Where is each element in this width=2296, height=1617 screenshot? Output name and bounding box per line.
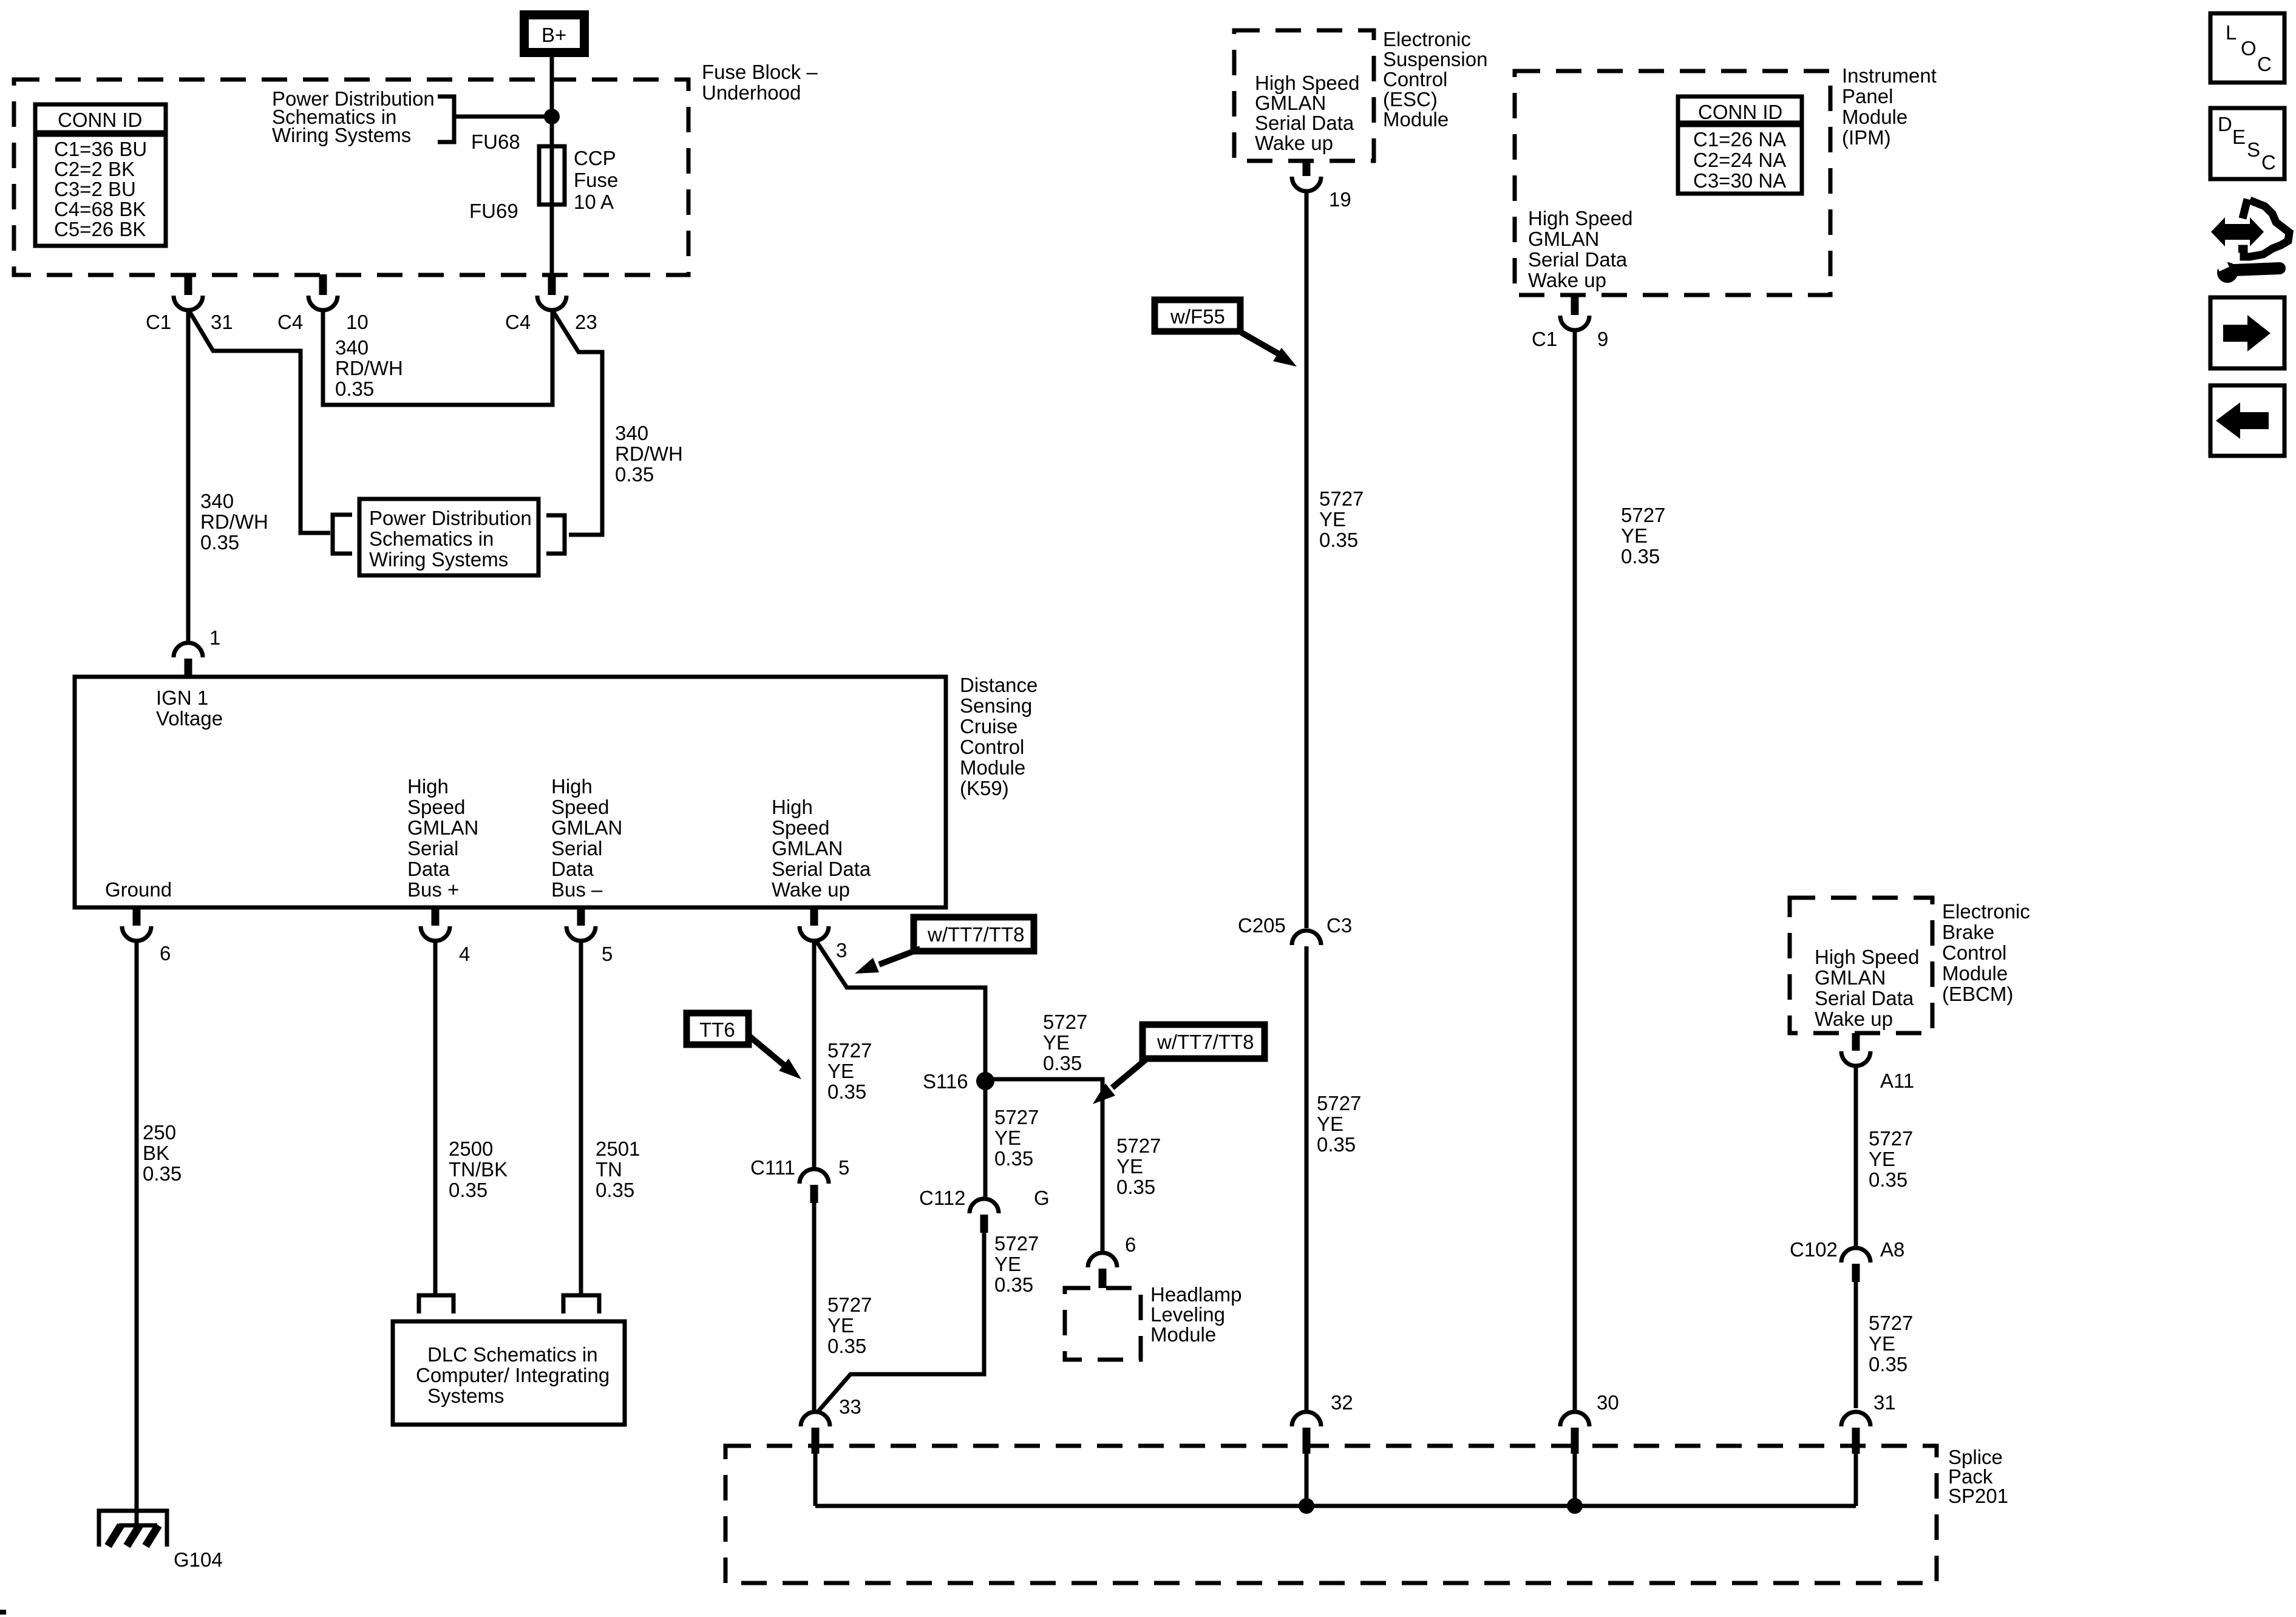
wire 340 RD/WH from C1-31 down to K59 pin 1 (186, 310, 191, 643)
svg-text:YE: YE (1317, 1113, 1343, 1135)
svg-text:S116: S116 (923, 1070, 968, 1093)
svg-text:Fuse: Fuse (574, 169, 618, 191)
label 2501 TN 0.35 (596, 1137, 640, 1201)
connector C102 pin A8 (1790, 1238, 1904, 1282)
svg-text:High Speed: High Speed (1815, 946, 1919, 968)
svg-text:Speed: Speed (407, 796, 465, 818)
svg-text:YE: YE (1043, 1031, 1070, 1054)
svg-text:5727: 5727 (827, 1039, 872, 1062)
svg-text:TT6: TT6 (699, 1019, 735, 1041)
bracket above DLC box (pin 4 wire) (419, 1295, 453, 1314)
svg-text:C4=68 BK: C4=68 BK (54, 198, 146, 220)
bracket right of Power Distribution box (546, 515, 565, 554)
label Power Distribution Schematics in Wiring Systems (top) (272, 87, 435, 146)
svg-text:C4: C4 (277, 311, 303, 333)
wire 2500 TN/BK (433, 941, 438, 1295)
svg-text:L: L (2226, 21, 2237, 44)
svg-text:(EBCM): (EBCM) (1942, 983, 2013, 1005)
svg-text:YE: YE (1621, 524, 1648, 547)
wire pin 3 down to C111 (812, 940, 817, 1169)
connector pin 19 (ESC) (1292, 161, 1351, 211)
svg-text:0.35: 0.35 (596, 1179, 634, 1201)
svg-text:GMLAN: GMLAN (1815, 966, 1886, 989)
svg-text:GMLAN: GMLAN (551, 816, 622, 839)
svg-text:GMLAN: GMLAN (407, 816, 478, 839)
svg-text:(ESC): (ESC) (1383, 88, 1438, 110)
svg-text:5727: 5727 (1621, 504, 1665, 526)
svg-text:High Speed: High Speed (1255, 72, 1359, 94)
svg-text:C4: C4 (505, 311, 531, 333)
svg-text:C102: C102 (1790, 1238, 1838, 1261)
svg-text:C3: C3 (1326, 914, 1352, 937)
label 5727 YE 0.35 (pin3 wire) (827, 1039, 872, 1103)
svg-text:(K59): (K59) (960, 777, 1009, 799)
junction node (bus x2154) (1299, 1498, 1314, 1514)
svg-text:340: 340 (200, 490, 234, 512)
fuse CCP 10A (539, 146, 565, 205)
svg-text:0.35: 0.35 (449, 1179, 487, 1201)
label 340 RD/WH 0.35 (C4-23 wire) (615, 422, 683, 486)
module K59 Distance Sensing Cruise Control (75, 677, 946, 907)
junction node (bus x2597) (1567, 1498, 1583, 1514)
svg-text:32: 32 (1331, 1391, 1353, 1414)
svg-text:5727: 5727 (1869, 1127, 1913, 1150)
svg-text:Instrument: Instrument (1842, 64, 1937, 87)
svg-text:RD/WH: RD/WH (200, 510, 268, 533)
module ESC dashed box (1234, 30, 1374, 161)
nav box back arrow (2210, 385, 2284, 456)
svg-text:C5=26 BK: C5=26 BK (54, 218, 146, 240)
label 5727 YE 0.35 (IPM wire) (1621, 504, 1665, 568)
svg-text:CONN ID: CONN ID (1698, 101, 1782, 123)
label 2500 TN/BK 0.35 (449, 1137, 508, 1201)
svg-text:5727: 5727 (994, 1232, 1039, 1255)
label 5727 YE 0.35 (above S116) (1043, 1011, 1087, 1074)
svg-text:Panel: Panel (1842, 85, 1893, 107)
connector pin A11 (EBCM) (1841, 1033, 1914, 1092)
svg-text:Suspension: Suspension (1383, 48, 1487, 70)
svg-text:SP201: SP201 (1948, 1485, 2008, 1507)
CONN ID table (fuse block) (35, 104, 166, 246)
wire C4-10 to C4-23 link (323, 310, 552, 405)
CONN ID table (IPM) (1678, 97, 1802, 194)
svg-text:w/TT7/TT8: w/TT7/TT8 (1156, 1031, 1254, 1053)
svg-text:0.35: 0.35 (1043, 1052, 1082, 1074)
svg-text:Control: Control (1942, 941, 2006, 964)
svg-text:Data: Data (407, 858, 450, 880)
wire splice bus risers (813, 1454, 818, 1506)
svg-text:5727: 5727 (1116, 1134, 1161, 1157)
nav box LOC (2210, 13, 2284, 83)
svg-text:3: 3 (836, 939, 847, 961)
connector pin 3 (K59 Wake up) (800, 906, 847, 961)
svg-text:RD/WH: RD/WH (615, 442, 683, 465)
label 5727 YE 0.35 (below C205) (1317, 1092, 1361, 1156)
svg-text:YE: YE (994, 1253, 1021, 1275)
svg-text:0.35: 0.35 (827, 1080, 866, 1103)
wire 2501 TN (579, 941, 583, 1295)
svg-text:Data: Data (551, 858, 594, 880)
wire branch C4-23 to power distribution bracket (right) (553, 311, 602, 535)
icon hand with wrench (description pointer) (2211, 199, 2289, 283)
svg-text:E: E (2232, 126, 2246, 148)
svg-text:0.35: 0.35 (1319, 529, 1358, 551)
stray mark (bottom-left corner) (0, 1610, 6, 1615)
svg-text:5727: 5727 (1869, 1312, 1913, 1334)
connector C111 pin 5 (750, 1156, 849, 1203)
svg-text:0.35: 0.35 (994, 1147, 1033, 1170)
svg-text:Schematics in: Schematics in (369, 527, 494, 550)
headlamp leveling module dashed box (1065, 1288, 1141, 1360)
svg-text:1: 1 (209, 626, 220, 649)
label Splice Pack SP201 (1948, 1446, 2008, 1507)
connector pin 6 (K59 Ground) (122, 906, 171, 964)
svg-text:YE: YE (1869, 1148, 1895, 1170)
ground G104 (99, 1511, 223, 1571)
module IPM dashed box (1515, 71, 1830, 295)
svg-text:9: 9 (1597, 328, 1608, 350)
wire pin 3 branch to S116 (817, 941, 985, 1081)
svg-text:YE: YE (827, 1314, 854, 1337)
svg-text:C1=36 BU: C1=36 BU (54, 138, 147, 160)
label Fuse Block - Underhood (702, 61, 818, 104)
arrow from TT6 to wire (749, 1036, 801, 1079)
junction node FU68 feed (544, 109, 560, 124)
wire splice bus (815, 1504, 1856, 1508)
svg-text:0.35: 0.35 (200, 531, 239, 554)
svg-text:Serial Data: Serial Data (1528, 248, 1628, 271)
wire S116 down to C112 (983, 1081, 988, 1199)
label Electronic Suspension Control (ESC) Module (1383, 28, 1487, 131)
svg-text:0.35: 0.35 (1116, 1176, 1155, 1198)
reference box TT6 (687, 1013, 749, 1045)
svg-text:High Speed: High Speed (1528, 207, 1632, 229)
svg-text:C112: C112 (919, 1187, 965, 1209)
svg-text:C: C (2257, 53, 2272, 75)
svg-text:Bus +: Bus + (407, 878, 459, 901)
svg-text:BK: BK (143, 1142, 169, 1164)
connector C1 pin 9 (IPM) (1532, 295, 1608, 350)
connector pin 30 (splice pack) (1560, 1391, 1619, 1454)
svg-text:Leveling: Leveling (1150, 1303, 1225, 1326)
svg-text:Control: Control (960, 736, 1024, 758)
bracket left of Power Distribution box (333, 515, 352, 554)
svg-text:S: S (2247, 138, 2260, 161)
svg-text:2500: 2500 (449, 1137, 493, 1160)
svg-text:Module: Module (1842, 106, 1907, 128)
wire C112 down and over to splice pin 33 (818, 1233, 984, 1412)
connector pin 1 (K59 top) (174, 626, 220, 677)
svg-text:Bus –: Bus – (551, 878, 603, 901)
svg-text:C111: C111 (750, 1156, 795, 1179)
svg-text:O: O (2241, 37, 2257, 59)
svg-text:A11: A11 (1880, 1070, 1914, 1092)
svg-text:YE: YE (827, 1060, 854, 1082)
arrow from lower w/TT7/TT8 to wire (1093, 1060, 1146, 1104)
svg-text:2501: 2501 (596, 1137, 640, 1160)
svg-text:YE: YE (994, 1127, 1021, 1149)
svg-text:0.35: 0.35 (1621, 545, 1660, 568)
svg-text:GMLAN: GMLAN (772, 837, 843, 859)
bracket above DLC box (pin 5 wire) (563, 1295, 599, 1314)
svg-text:Headlamp: Headlamp (1150, 1283, 1241, 1306)
connector pin 6 (headlamp leveling module) (1088, 1233, 1136, 1288)
svg-text:YE: YE (1869, 1332, 1895, 1355)
svg-text:Power Distribution: Power Distribution (369, 507, 532, 529)
svg-text:High: High (551, 775, 593, 798)
Power Distribution Schematics box (middle) (359, 499, 538, 575)
svg-text:Systems: Systems (427, 1385, 504, 1407)
module EBCM dashed box (1790, 898, 1932, 1033)
connector pin 31 (splice pack) (1841, 1391, 1896, 1454)
svg-text:250: 250 (143, 1121, 176, 1144)
connector pin 5 (K59 Bus -) (566, 906, 613, 965)
svg-text:Module: Module (1383, 108, 1449, 131)
connector pin 32 (splice pack) (1292, 1391, 1353, 1454)
label Headlamp Leveling Module (1150, 1283, 1241, 1346)
svg-text:10 A: 10 A (574, 191, 614, 213)
svg-text:Speed: Speed (551, 796, 609, 818)
svg-text:A8: A8 (1880, 1238, 1904, 1261)
svg-text:TN: TN (596, 1158, 622, 1181)
svg-text:0.35: 0.35 (615, 463, 654, 486)
svg-text:CONN ID: CONN ID (58, 109, 142, 131)
connector C4 pin 10 (fuse block bottom) (277, 274, 369, 333)
wire ESC pin 19 down (1305, 191, 1309, 928)
svg-text:Ground: Ground (105, 878, 172, 901)
svg-text:Module: Module (1942, 962, 2008, 985)
wire branch C1-31 to power distribution bracket (189, 311, 330, 533)
svg-text:IGN 1: IGN 1 (156, 686, 208, 709)
bracket to Power Distribution reference (top) (438, 97, 552, 142)
svg-text:33: 33 (839, 1395, 861, 1418)
label 5727 YE 0.35 (below C111) (827, 1293, 872, 1357)
svg-text:Wake up: Wake up (1528, 269, 1606, 291)
svg-text:Cruise: Cruise (960, 715, 1017, 737)
svg-text:5727: 5727 (994, 1106, 1039, 1128)
svg-text:0.35: 0.35 (994, 1273, 1033, 1296)
svg-text:0.35: 0.35 (335, 378, 374, 400)
svg-text:Computer/ Integrating: Computer/ Integrating (416, 1364, 610, 1386)
svg-text:TN/BK: TN/BK (449, 1158, 508, 1181)
svg-text:Wiring Systems: Wiring Systems (272, 124, 411, 146)
svg-text:Distance: Distance (960, 674, 1038, 696)
splice node S116 (923, 1070, 994, 1093)
wire EBCM down to C102 (1854, 1066, 1858, 1248)
label 5727 YE 0.35 (EBCM wire) (1869, 1127, 1913, 1191)
svg-text:CCP: CCP (574, 147, 616, 169)
svg-text:RD/WH: RD/WH (335, 357, 403, 379)
wire 250 BK ground (135, 941, 139, 1525)
label Electronic Brake Control Module (EBCM) (1942, 900, 2030, 1005)
svg-text:Serial: Serial (551, 837, 602, 859)
svg-text:High: High (772, 796, 813, 818)
label CCP Fuse 10 A (574, 147, 618, 213)
label 340 RD/WH 0.35 (C4-10 wire) (335, 336, 403, 400)
reference box w/TT7/TT8 (lower) (1143, 1025, 1265, 1059)
svg-text:5: 5 (838, 1156, 849, 1179)
wire IPM pin 9 down to splice pin 30 (1573, 330, 1577, 1412)
svg-text:C3=2 BU: C3=2 BU (54, 178, 136, 200)
reference box w/F55 (1155, 300, 1240, 331)
svg-text:Serial: Serial (407, 837, 458, 859)
svg-text:Wake up: Wake up (1815, 1008, 1893, 1030)
connector C1 pin 31 (fuse block bottom) (146, 274, 233, 333)
label 5727 YE 0.35 (below C112) (994, 1232, 1039, 1296)
svg-text:6: 6 (160, 942, 171, 964)
connector C205 pin C3 (1238, 914, 1352, 945)
svg-text:Serial Data: Serial Data (772, 858, 871, 880)
nav box DESC (2210, 108, 2284, 179)
svg-text:0.35: 0.35 (827, 1335, 866, 1357)
svg-text:10: 10 (346, 311, 369, 333)
svg-text:C1=26 NA: C1=26 NA (1693, 128, 1786, 151)
svg-text:C1: C1 (146, 311, 171, 333)
svg-text:0.35: 0.35 (143, 1162, 182, 1185)
svg-text:B+: B+ (542, 24, 566, 46)
svg-text:5727: 5727 (1043, 1011, 1087, 1033)
svg-text:19: 19 (1329, 188, 1351, 211)
svg-text:Module: Module (1150, 1323, 1216, 1346)
svg-text:DLC Schematics in: DLC Schematics in (427, 1343, 598, 1366)
svg-text:FU68: FU68 (471, 131, 520, 153)
svg-text:Electronic: Electronic (1383, 28, 1471, 50)
fuse block - underhood dashed box (14, 80, 688, 275)
wire C102 down to splice pin 31 (1854, 1282, 1858, 1408)
svg-text:Sensing: Sensing (960, 694, 1032, 717)
svg-text:5727: 5727 (1317, 1092, 1361, 1114)
DLC Schematics reference box (393, 1321, 625, 1425)
reference box w/TT7/TT8 (upper) (914, 917, 1034, 951)
svg-text:Voltage: Voltage (156, 707, 223, 730)
svg-text:340: 340 (615, 422, 648, 444)
svg-text:340: 340 (335, 336, 369, 359)
svg-text:Fuse Block –: Fuse Block – (702, 61, 818, 83)
svg-text:6: 6 (1125, 1233, 1136, 1256)
svg-text:C2=24 NA: C2=24 NA (1693, 149, 1786, 171)
svg-text:4: 4 (459, 943, 470, 965)
svg-text:23: 23 (575, 311, 597, 333)
svg-text:5727: 5727 (827, 1293, 872, 1316)
svg-text:C205: C205 (1238, 914, 1286, 937)
svg-text:GMLAN: GMLAN (1255, 92, 1326, 114)
svg-text:G104: G104 (174, 1548, 223, 1571)
svg-text:5727: 5727 (1319, 487, 1364, 510)
svg-text:D: D (2218, 113, 2232, 135)
svg-text:C2=2 BK: C2=2 BK (54, 158, 135, 180)
svg-text:Wiring Systems: Wiring Systems (369, 548, 508, 571)
splice pack SP201 dashed box (725, 1446, 1937, 1583)
wire C111 down to splice pin 33 (812, 1203, 817, 1412)
svg-text:(IPM): (IPM) (1842, 126, 1891, 149)
connector pin 4 (K59 Bus +) (421, 906, 470, 965)
svg-text:0.35: 0.35 (1317, 1133, 1356, 1156)
svg-text:High: High (407, 775, 449, 798)
svg-text:Wake up: Wake up (1255, 132, 1333, 154)
wire B+ down through fuse block (550, 57, 554, 274)
power symbol B+ (520, 10, 589, 57)
connector C4 pin 23 (fuse block bottom) (505, 274, 597, 333)
svg-text:5: 5 (602, 943, 613, 965)
nav box forward arrow (2210, 297, 2284, 368)
svg-text:FU69: FU69 (469, 200, 518, 222)
svg-text:Control: Control (1383, 68, 1447, 90)
svg-text:YE: YE (1116, 1155, 1143, 1178)
label 250 BK 0.35 (143, 1121, 182, 1185)
svg-text:Serial Data: Serial Data (1815, 987, 1914, 1009)
arrow from w/F55 to wire (1241, 333, 1297, 367)
label Distance Sensing Cruise Control Module (K59) (960, 674, 1038, 799)
svg-text:C1: C1 (1532, 328, 1557, 350)
svg-text:Serial Data: Serial Data (1255, 112, 1354, 134)
arrow from w/TT7/TT8 to wire (855, 949, 920, 974)
svg-text:w/F55: w/F55 (1170, 305, 1225, 328)
svg-text:30: 30 (1597, 1391, 1619, 1414)
wire S116 branch right to headlamp (985, 1079, 1102, 1253)
label 340 RD/WH 0.35 (C1 wire) (200, 490, 268, 554)
svg-text:Module: Module (960, 756, 1025, 779)
wire C205 down to splice pin 32 (1305, 946, 1309, 1412)
label 5727 YE 0.35 (below C102) (1869, 1312, 1913, 1375)
label 5727 YE 0.35 (headlamp wire) (1116, 1134, 1161, 1198)
label 5727 YE 0.35 (S116 to C112) (994, 1106, 1039, 1170)
label Instrument Panel Module (IPM) (1842, 64, 1937, 149)
svg-text:Wake up: Wake up (772, 878, 850, 901)
label 5727 YE 0.35 (ESC wire) (1319, 487, 1364, 551)
svg-text:31: 31 (1873, 1391, 1896, 1414)
svg-text:w/TT7/TT8: w/TT7/TT8 (927, 923, 1025, 946)
svg-text:0.35: 0.35 (1869, 1168, 1907, 1191)
svg-text:31: 31 (211, 311, 233, 333)
svg-text:Electronic: Electronic (1942, 900, 2030, 923)
svg-text:Underhood: Underhood (702, 81, 801, 104)
svg-text:Speed: Speed (772, 816, 829, 839)
connector C112 pin G (919, 1187, 1050, 1233)
connector pin 33 (splice pack) (801, 1395, 861, 1454)
svg-text:0.35: 0.35 (1869, 1353, 1907, 1375)
svg-text:C3=30 NA: C3=30 NA (1693, 169, 1786, 192)
svg-text:YE: YE (1319, 508, 1346, 531)
svg-text:GMLAN: GMLAN (1528, 228, 1599, 250)
svg-text:Brake: Brake (1942, 921, 1994, 943)
svg-text:C: C (2261, 151, 2276, 174)
svg-text:G: G (1034, 1187, 1050, 1209)
